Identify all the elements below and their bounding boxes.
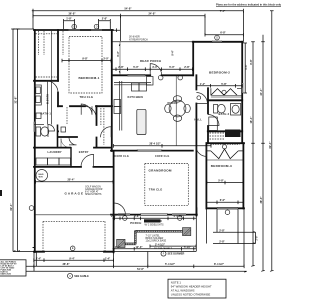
svg-text:28'-4 1/2": 28'-4 1/2" (149, 142, 161, 146)
closet dashes left (66, 107, 68, 124)
svg-text:DATE 2020: DATE 2020 (1, 272, 12, 275)
door hall to bath-2 (208, 115, 219, 126)
svg-text:TO TOP OF BELT: TO TOP OF BELT (154, 248, 172, 250)
marker window bed2 top (215, 35, 220, 40)
svg-text:GRANDROOM: GRANDROOM (149, 169, 172, 173)
bath-1 inner wall (34, 124, 44, 126)
svg-text:KITCHEN: KITCHEN (128, 95, 144, 99)
wall bedroom-3 top (206, 142, 244, 144)
bifold closet bedroom-3 (211, 149, 238, 159)
svg-text:24'-8": 24'-8" (148, 12, 156, 16)
wall front (grandroom) (111, 214, 197, 216)
marker garage door (70, 246, 75, 251)
dim porch roof vertical label line arrows (118, 44, 121, 73)
wall jog bedroom-3 to front wall (195, 208, 197, 215)
dim right long verticals (251, 11, 273, 272)
dim bedroom-3 bottom right rows (213, 232, 256, 244)
svg-text:6'-0": 6'-0" (220, 198, 226, 202)
dim extension bottom verticals (34, 209, 244, 272)
svg-text:D: D (96, 26, 98, 29)
svg-text:4'-5 1/2": 4'-5 1/2" (174, 214, 185, 218)
dim top line second (33, 14, 205, 18)
svg-text:6'-8": 6'-8" (220, 31, 226, 35)
bath-1 shower wall (47, 125, 49, 138)
kitchen island (137, 109, 146, 134)
wall laundry bottom (34, 166, 114, 168)
door front entry thin (140, 214, 168, 215)
door garage to house (114, 203, 126, 215)
porch column right (183, 228, 191, 236)
svg-text:12'-0": 12'-0" (135, 245, 143, 249)
closet wall right of bath (57, 125, 59, 148)
closet jamb stubs bedroom-3 (207, 150, 243, 152)
svg-text:SPECS PRMTS: SPECS PRMTS (85, 194, 102, 196)
closet rod solid bedroom-1 (51, 31, 53, 80)
tray ceiling bedroom-1 (69, 37, 102, 94)
svg-text:F: F (163, 253, 165, 256)
centerline through dining (175, 76, 177, 146)
dim left vertical lines (11, 29, 20, 252)
window bedroom-2 top (212, 41, 222, 42)
marker see gable (68, 273, 73, 278)
window bedroom-2 right wall (242, 83, 243, 93)
svg-text:2'-8": 2'-8" (184, 65, 190, 69)
wall closet/bedroom-1 divider (57, 30, 59, 106)
garage front plane line (36, 214, 113, 216)
svg-text:36x80 FR DOOR: 36x80 FR DOOR (145, 221, 163, 223)
svg-text:AT REAR PORCH: AT REAR PORCH (129, 38, 148, 41)
bar window bed2 top (212, 41, 222, 43)
toilet bath-1 (36, 127, 41, 136)
fridge (147, 77, 154, 86)
svg-text:9'-8": 9'-8" (245, 64, 248, 69)
svg-text:5'-0": 5'-0" (133, 65, 139, 69)
dim belt row (150, 245, 196, 248)
svg-text:GAS: GAS (38, 173, 44, 176)
svg-text:7'-4": 7'-4" (220, 9, 226, 13)
closet fixture (61, 127, 66, 132)
closet face line bedroom-3 (207, 159, 243, 161)
svg-text:8'-4 1/2": 8'-4 1/2" (214, 262, 225, 266)
svg-text:3'-0": 3'-0" (152, 65, 158, 69)
wall bedroom-1 bottom (58, 105, 112, 107)
dim top line overall (32, 9, 244, 13)
marker window bed1 b (94, 24, 99, 29)
marker rear door (158, 75, 163, 80)
svg-text:REAR PORCH: REAR PORCH (140, 59, 161, 63)
porch brick hatch vertical (134, 231, 136, 244)
garage door opening (44, 250, 104, 252)
wall laundry top (34, 147, 111, 149)
dim extension verticals top (33, 11, 243, 41)
svg-text:BATH-2: BATH-2 (219, 112, 230, 116)
wall closets mid (96, 106, 98, 147)
wall bedroom-3 left (205, 143, 207, 208)
svg-text:9'-8": 9'-8" (82, 57, 88, 61)
svg-text:E: E (72, 247, 74, 250)
wall house left (34, 30, 36, 252)
wall garage right (113, 151, 115, 252)
svg-text:5'-4 1/2": 5'-4 1/2" (165, 262, 176, 266)
wall bath-1 top (34, 80, 58, 82)
wall garage front (34, 251, 114, 253)
porch brick edge horizontal (135, 230, 182, 232)
wall bedroom-1 top (34, 29, 113, 31)
dim garage front row (34, 258, 114, 262)
svg-text:5'-8": 5'-8" (218, 178, 224, 182)
tray ceiling grandroom (145, 164, 189, 206)
svg-text:2'-8": 2'-8" (118, 65, 124, 69)
window bedroom-3 bottom (217, 208, 238, 209)
closet shelf dash bedroom-3 (210, 144, 239, 146)
dim porch front row (113, 217, 197, 221)
svg-text:DINING: DINING (168, 102, 178, 105)
svg-text:62'-4": 62'-4" (9, 203, 13, 211)
svg-text:20'-4": 20'-4" (67, 178, 75, 182)
svg-text:5'-0": 5'-0" (169, 65, 175, 69)
svg-text:HALL: HALL (194, 117, 202, 121)
svg-text:BEDROOM-3: BEDROOM-3 (211, 164, 232, 168)
door kitchen to rear porch (150, 64, 161, 75)
vanity bath-1 (35, 85, 42, 105)
bath-1 lower fixture (36, 113, 41, 119)
svg-text:3'-0": 3'-0" (103, 57, 109, 61)
wall bath-1 / closet mid horizontal (58, 131, 77, 137)
svg-text:38'-8": 38'-8" (62, 262, 70, 266)
svg-text:PEDESTAL LAV: PEDESTAL LAV (226, 131, 242, 134)
window house left wall (34, 122, 35, 132)
wall bath-2 top (208, 99, 242, 101)
dim bedroom-3 window row (207, 201, 243, 205)
bar window bed1 b (91, 29, 102, 31)
dim kitchen row 28' (114, 144, 212, 148)
marker garage left wall (29, 206, 34, 211)
svg-text:D: D (216, 37, 218, 40)
porch brick hatch horizontal (135, 230, 182, 232)
svg-text:2'-4": 2'-4" (111, 214, 117, 218)
svg-text:TRH CLG: TRH CLG (80, 95, 94, 99)
svg-text:COFR CLG: COFR CLG (155, 155, 169, 158)
washer dryer laundry (36, 158, 48, 165)
pantry shelf dashes (101, 108, 104, 145)
porch brick edge left step (125, 243, 136, 245)
marker front window a (123, 216, 128, 221)
svg-text:LAUNDRY: LAUNDRY (48, 150, 62, 154)
wall hall left (195, 75, 197, 215)
svg-text:BATH-1: BATH-1 (41, 112, 52, 115)
wall bedroom-3 right (242, 143, 244, 208)
dim bedroom2 closet row (197, 84, 243, 88)
marker rear window (178, 75, 183, 80)
svg-text:5'-8": 5'-8" (221, 82, 227, 86)
bar window kitchen rear (128, 75, 146, 77)
svg-text:9'-4": 9'-4" (69, 256, 75, 260)
water heater (36, 170, 48, 182)
bifold closet bedroom-2 (211, 89, 237, 96)
closet shelf lines bedroom-2 (211, 95, 242, 97)
door bath-1 (46, 81, 58, 93)
dim porch 1'-0" (113, 28, 120, 32)
marker see dormer (161, 251, 166, 256)
porch roof edge top (113, 41, 193, 43)
svg-text:M.BATH: M.BATH (47, 94, 50, 104)
dim porch bottom row (113, 247, 197, 251)
kitchen counter left vertical (120, 81, 122, 131)
closet side jambs bedroom-2 (211, 88, 242, 95)
closet door arc lower (69, 137, 77, 145)
svg-text:PORCH: PORCH (130, 221, 141, 225)
tub bath-2 (209, 117, 218, 131)
svg-text:2'-8": 2'-8" (219, 240, 225, 244)
dim bedroom-3 interior (207, 181, 243, 185)
svg-text:2'-4": 2'-4" (36, 256, 42, 260)
svg-text:54'-8": 54'-8" (124, 7, 132, 11)
svg-text:62'-4": 62'-4" (268, 141, 272, 149)
svg-text:9'-4": 9'-4" (172, 50, 175, 55)
svg-text:36'-8": 36'-8" (68, 12, 76, 16)
bar window front b (172, 214, 186, 216)
porch column left (117, 239, 125, 247)
marker closet bed3 (222, 145, 226, 149)
door hall closet b (101, 127, 112, 138)
wall rear (kitchen) (112, 74, 193, 76)
svg-text:9'-8": 9'-8" (249, 58, 253, 64)
marker hall door (197, 96, 201, 100)
closet dashes bedroom-1 left (39, 31, 64, 55)
cooktop squares (132, 83, 140, 91)
dim garage interior (36, 180, 114, 184)
bath-1 door arc small (48, 125, 55, 132)
svg-text:8'-4": 8'-4" (117, 51, 120, 56)
svg-text:16'-4": 16'-4" (249, 116, 253, 124)
porch brick hatch left step (125, 243, 136, 245)
svg-text:1'-8": 1'-8" (66, 17, 72, 21)
toilet bath-2 (214, 105, 218, 114)
svg-text:2'-4 1/2": 2'-4 1/2" (155, 243, 166, 247)
svg-text:2'-8": 2'-8" (257, 236, 259, 241)
closet door arc mid (81, 104, 92, 115)
svg-text:5'-10": 5'-10" (184, 245, 192, 249)
dining chairs (173, 96, 181, 102)
door entry to garage (81, 154, 94, 167)
note front door black box (144, 219, 161, 222)
wall laundry-entry divider (70, 148, 72, 167)
vanity bath-2 (231, 104, 241, 116)
svg-text:TRH CLG: TRH CLG (149, 187, 163, 191)
svg-text:COFR CLG: COFR CLG (115, 155, 129, 158)
dim bedroom-1 row (62, 59, 111, 63)
svg-text:CAB WASH: CAB WASH (226, 134, 238, 137)
svg-text:1'-0": 1'-0" (115, 245, 121, 249)
wall grandroom top (111, 150, 193, 152)
svg-text:1'-4": 1'-4" (200, 82, 206, 86)
porch brick edge vertical (134, 230, 136, 244)
wall ovens (114, 100, 121, 107)
marker window bed1 a (72, 24, 77, 29)
bar window bed3 bottom (217, 208, 238, 210)
svg-text:UNLESS NOTED OTHERWISE: UNLESS NOTED OTHERWISE (171, 292, 211, 296)
svg-text:GARAGE: GARAGE (65, 192, 85, 196)
svg-text:BEDROOM-2: BEDROOM-2 (209, 70, 230, 74)
bar window left wall (34, 122, 36, 132)
window bedroom-1 top a (69, 29, 81, 30)
svg-text:24'-4": 24'-4" (259, 88, 263, 96)
window bedroom-1 top b (91, 29, 102, 30)
bar window bed1 a (69, 29, 81, 31)
cased opening grandroom (137, 150, 162, 151)
garage door header dashed (43, 221, 105, 251)
marker closet bed2 (222, 90, 226, 94)
wall spine right of bedroom-1 / garage right (111, 30, 113, 151)
svg-text:2'-8": 2'-8" (219, 228, 225, 232)
svg-text:SEE DORMER: SEE DORMER (168, 253, 185, 256)
svg-text:1'-4": 1'-4" (105, 256, 111, 260)
kitchen counter top horizontal (114, 83, 151, 85)
bar window bed2 right wall (241, 83, 243, 93)
door closet a (85, 106, 96, 117)
bar window front a (118, 214, 130, 216)
svg-text:WH: WH (39, 176, 43, 178)
window kitchen rear (128, 75, 146, 76)
door laundry gap arc (61, 139, 70, 148)
svg-text:12x12 BRICK BASE: 12x12 BRICK BASE (146, 239, 167, 242)
svg-text:31'-8": 31'-8" (14, 96, 18, 104)
svg-text:D: D (74, 26, 76, 29)
hall lines left (48, 81, 52, 125)
dim top small segments (64, 19, 111, 22)
door hall to bedroom-3 (196, 146, 207, 157)
svg-text:36'-8 HDR: 36'-8 HDR (129, 37, 140, 39)
svg-text:C: C (69, 275, 71, 278)
svg-text:ENTRY: ENTRY (79, 150, 89, 154)
garage corner pilaster (33, 248, 35, 253)
closet shelf dashes horizontal (36, 34, 58, 77)
porch dim vertical (119, 42, 121, 75)
dining table (169, 100, 186, 117)
wall bedroom-3 bottom (206, 207, 244, 209)
dim bottom row 264 (13, 265, 244, 269)
dim right inner 9'-8" (243, 43, 247, 93)
svg-text:SEE GABLE: SEE GABLE (74, 275, 89, 278)
wall bedroom-2 top (193, 41, 243, 43)
door dining to hall (196, 93, 207, 104)
dim bottom long 253 (13, 250, 196, 253)
wall bath-2 bottom (208, 130, 242, 132)
window front wall b (172, 214, 186, 215)
svg-text:BEDROOM-1: BEDROOM-1 (79, 76, 100, 80)
linen shelf dashes (210, 133, 225, 139)
svg-text:38'-0": 38'-0" (259, 196, 263, 204)
dim bottom long 272 (13, 270, 247, 272)
marker front window b (178, 216, 183, 221)
window front wall a (118, 214, 130, 215)
wall right exterior (bedroom-2 / bath-2) (241, 42, 243, 143)
marker bed3 window (225, 210, 230, 215)
dim rear wall row (113, 67, 193, 71)
dim left top connector (13, 28, 34, 30)
svg-text:2'-8": 2'-8" (102, 17, 108, 21)
dim top right 6'-8" (205, 33, 243, 36)
svg-text:54'-8": 54'-8" (137, 267, 145, 271)
wall bedroom-2 left (192, 42, 194, 76)
svg-text:W/ 2 SIDELIGHTS: W/ 2 SIDELIGHTS (145, 224, 164, 226)
wall hall right (207, 88, 209, 143)
svg-text:9'-8": 9'-8" (134, 214, 140, 218)
svg-text:Plans are for the address indi: Plans are for the address indicated in t… (216, 3, 282, 7)
